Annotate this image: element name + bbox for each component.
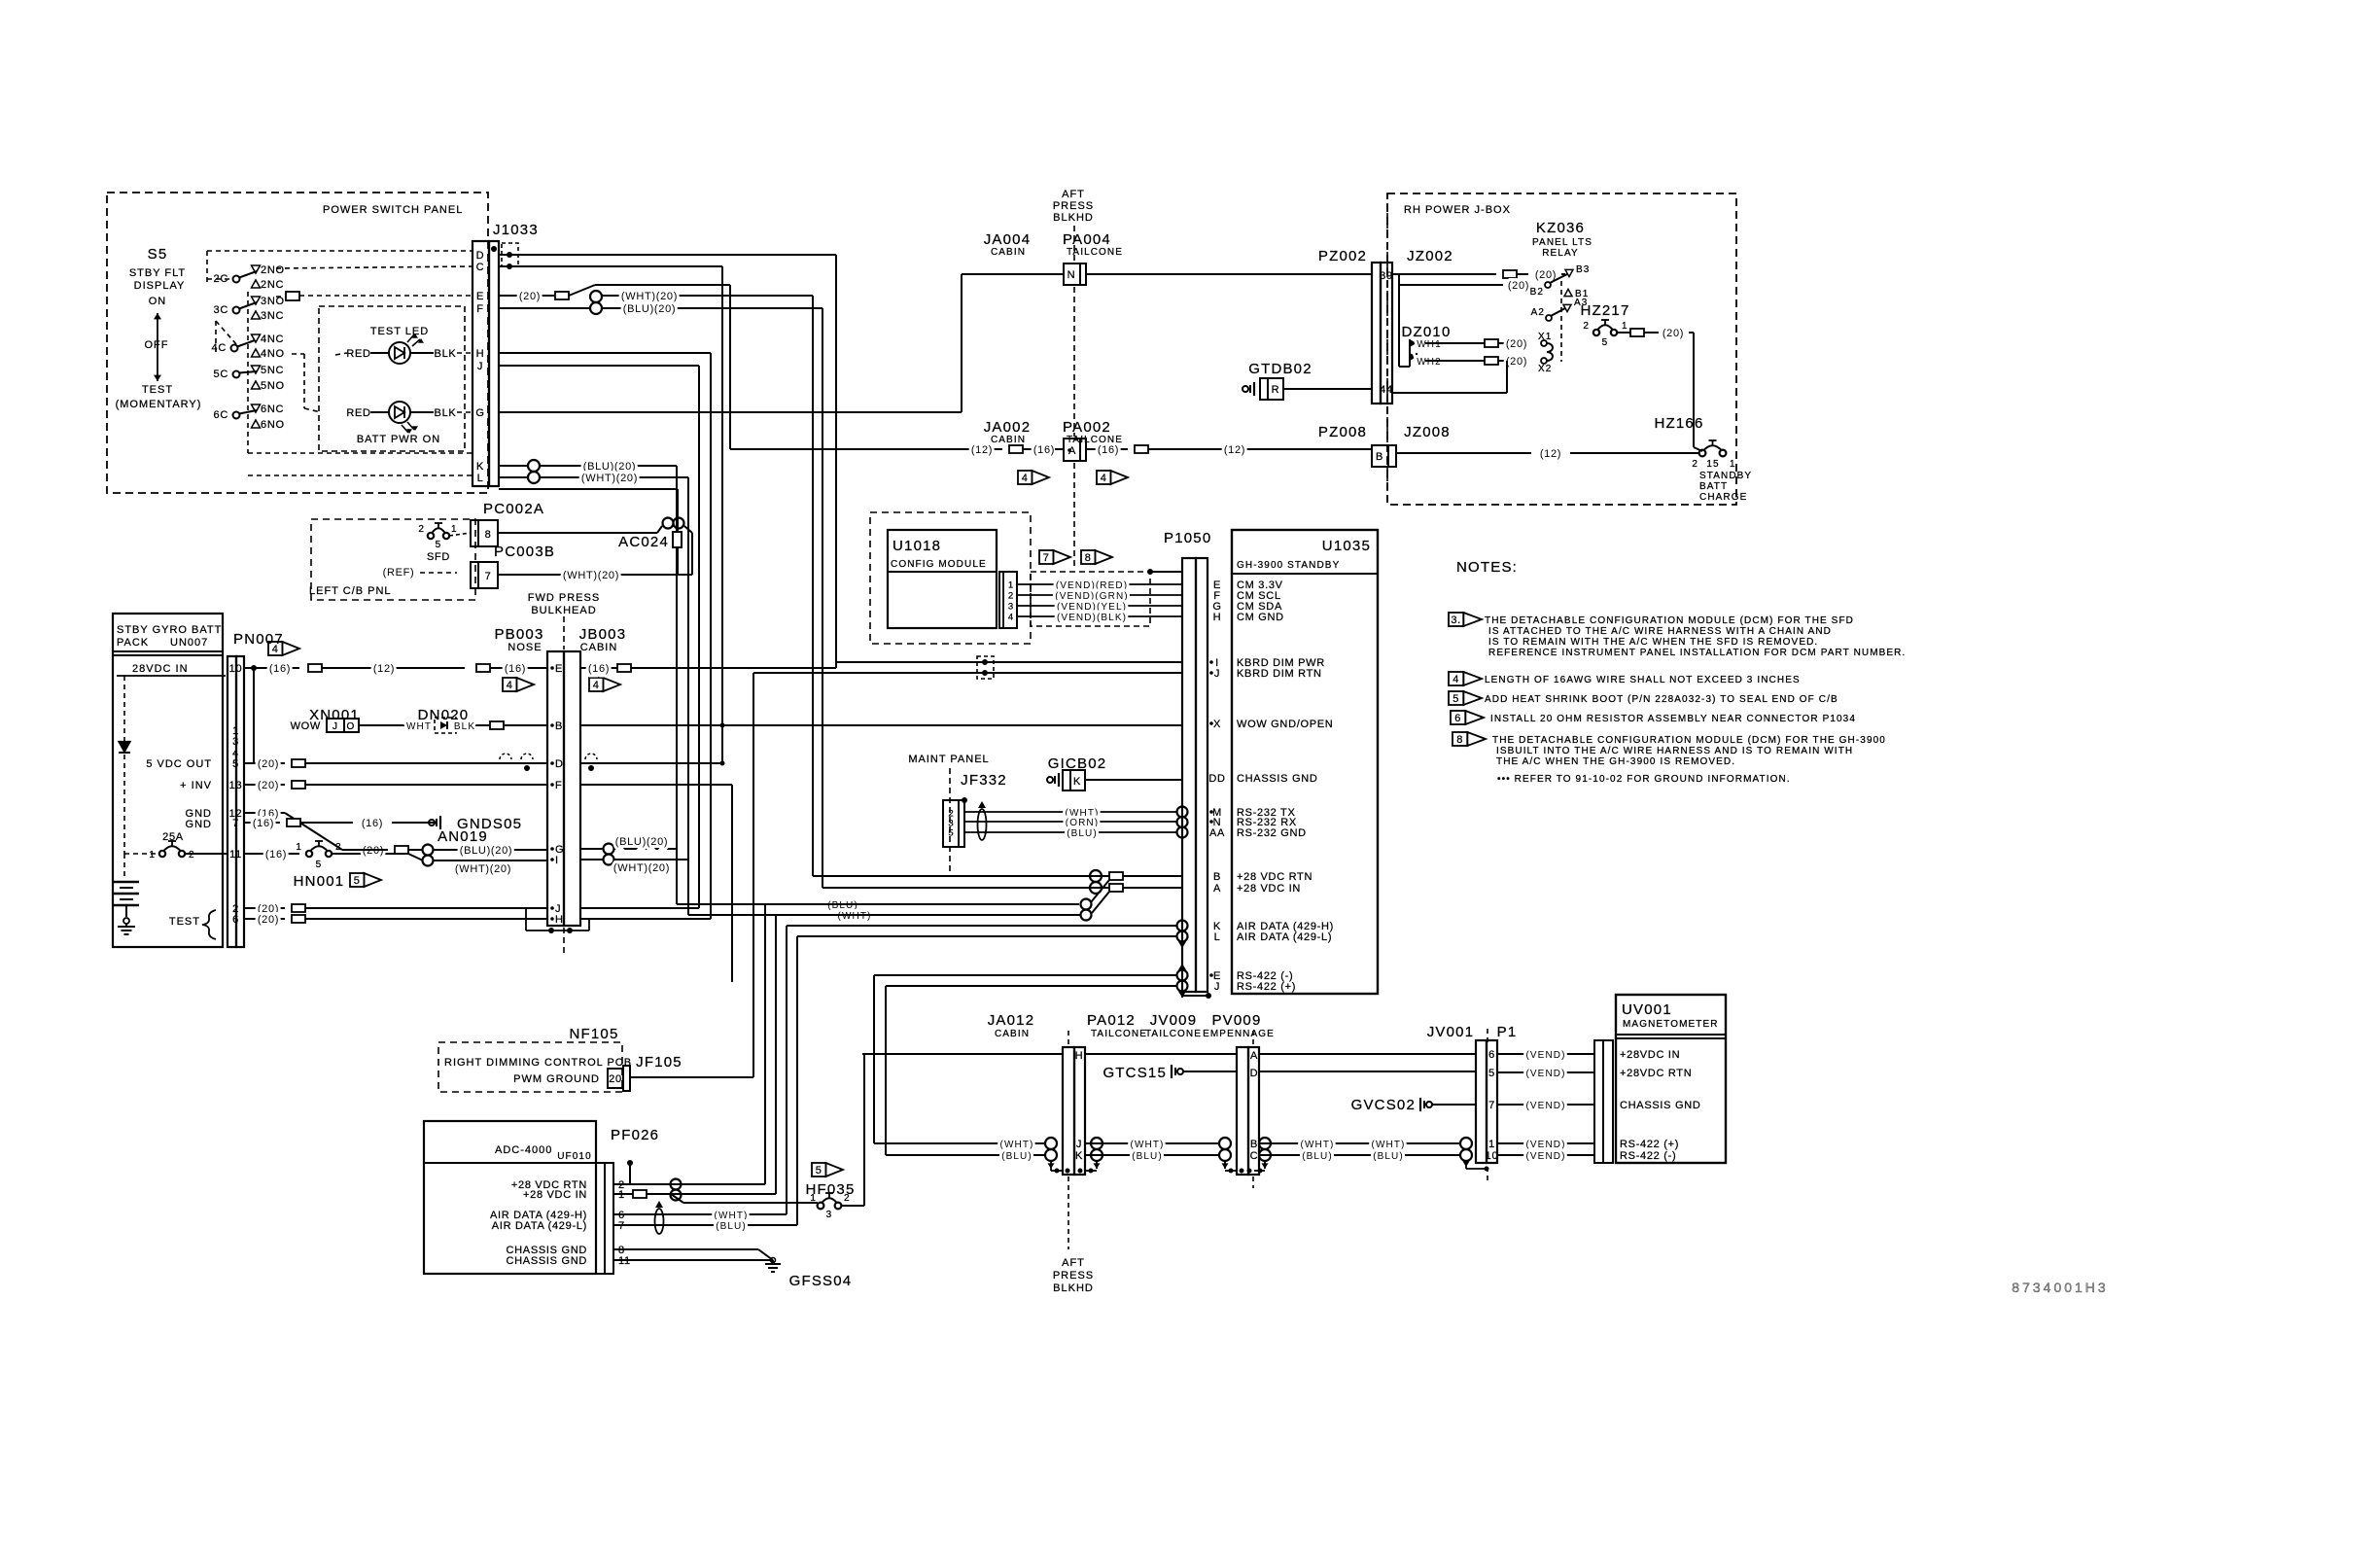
- svg-text:RS-232 GND: RS-232 GND: [1237, 827, 1307, 839]
- twisted pair at E/F: [499, 291, 602, 314]
- U1018 config module box: [888, 530, 997, 628]
- JV001 pin 1: [1488, 1139, 1495, 1150]
- svg-text:1: 1: [1622, 321, 1628, 332]
- wire AIR DATA 429-L row: [797, 935, 1176, 937]
- wire L (WHT)(20): [540, 473, 688, 915]
- wire A through PV009: [1259, 1053, 1476, 1055]
- wire pin10 to bulkhead E: [244, 663, 547, 675]
- svg-text:5NO: 5NO: [261, 380, 285, 392]
- wire branch to HF035: [671, 1194, 818, 1203]
- wire RS-232 TX (WHT): [964, 808, 1177, 819]
- svg-text:J: J: [1214, 668, 1220, 680]
- svg-text:O: O: [347, 721, 356, 732]
- svg-text:+28 VDC RTN: +28 VDC RTN: [1237, 871, 1312, 883]
- wire E (20) riser: [499, 285, 730, 449]
- svg-text:AA: AA: [1209, 827, 1225, 839]
- P1050 pin B / +28 VDC RTN: [1213, 871, 1312, 883]
- switch pole 4C: [212, 334, 285, 360]
- wire K (BLU)(20): [540, 461, 677, 904]
- svg-text:(VEND)(BLK): (VEND)(BLK): [1057, 613, 1127, 623]
- twisted shield JV001: [1460, 1138, 1489, 1172]
- svg-text:RS-422 (+): RS-422 (+): [1620, 1139, 1679, 1150]
- connector JV009 label: [1145, 1012, 1202, 1039]
- svg-text:4: 4: [1101, 473, 1107, 484]
- svg-text:(12): (12): [1540, 448, 1561, 460]
- svg-text:NOTES:: NOTES:: [1456, 559, 1518, 576]
- svg-text:STBY FLT: STBY FLT: [129, 267, 186, 279]
- JV009 pin C: [1250, 1150, 1259, 1162]
- connector PN007 label: [233, 631, 284, 648]
- wire 44 to coil: [1392, 361, 1507, 393]
- svg-text:AC024: AC024: [618, 534, 669, 550]
- svg-text:(16): (16): [269, 663, 291, 675]
- connector PA004 label: [1063, 231, 1123, 258]
- svg-text:(20): (20): [1508, 280, 1529, 292]
- note 6 flag: [1451, 711, 1484, 724]
- twisted shield AIR DATA: [1177, 921, 1188, 949]
- svg-text:(BLU): (BLU): [1132, 1151, 1163, 1162]
- wire 39 to B3: [1392, 269, 1565, 281]
- J1033 pin C: [476, 262, 485, 273]
- wire G to panel lts: [499, 274, 962, 412]
- svg-text:RED: RED: [346, 348, 370, 360]
- twisted pair at K/L: [499, 460, 540, 483]
- svg-text:6: 6: [1454, 713, 1461, 724]
- svg-text:11: 11: [229, 849, 242, 860]
- svg-text:RS-422 (+): RS-422 (+): [1237, 981, 1296, 993]
- svg-text:A2: A2: [1531, 307, 1545, 318]
- contact B1: [1564, 289, 1589, 299]
- svg-text:44: 44: [1380, 384, 1393, 396]
- breaker SFD: [418, 523, 471, 563]
- wire B2 branch: [1399, 274, 1529, 292]
- wire CM GND (VEND)(BLK): [1017, 613, 1182, 623]
- GND labels: [186, 808, 212, 830]
- wire WH1 X1: [1417, 332, 1552, 350]
- wire WHT/BLU into JV009: [1215, 1143, 1219, 1155]
- diode pair DZ010: [1399, 285, 1452, 367]
- svg-text:6C: 6C: [214, 409, 228, 421]
- PF026 labels: [495, 1127, 659, 1162]
- svg-text:JA002: JA002: [984, 419, 1032, 436]
- UF010 top jumper: [627, 1160, 633, 1184]
- svg-text:MAGNETOMETER: MAGNETOMETER: [1623, 1019, 1719, 1030]
- svg-text:CABIN: CABIN: [991, 435, 1026, 445]
- connector PC002A label: [483, 501, 544, 517]
- wire J1033 bottom to AC024: [499, 489, 678, 532]
- svg-text:WH2: WH2: [1417, 357, 1442, 368]
- svg-text:GFSS04: GFSS04: [789, 1273, 853, 1289]
- note flag 8: [1081, 550, 1112, 564]
- svg-text:U1018: U1018: [892, 538, 941, 554]
- svg-text:THE DETACHABLE CONFIGURATION M: THE DETACHABLE CONFIGURATION MODULE (DCM…: [1492, 735, 1886, 746]
- svg-text:AFT: AFT: [1062, 1257, 1085, 1269]
- svg-text:B3: B3: [1576, 264, 1590, 275]
- TEST label: [169, 910, 216, 939]
- svg-text:(20): (20): [1506, 338, 1527, 350]
- svg-text:2: 2: [1692, 459, 1698, 470]
- connector PN007: [227, 656, 244, 947]
- svg-text:JV001: JV001: [1427, 1024, 1475, 1040]
- svg-text:BLK: BLK: [454, 721, 475, 732]
- svg-text:2: 2: [335, 842, 342, 853]
- svg-text:H: H: [476, 348, 485, 360]
- JF332 shield: [978, 801, 987, 840]
- UN007 title: [113, 624, 223, 655]
- svg-text:(WHT)(20): (WHT)(20): [613, 862, 670, 874]
- dashed from 4NO to LED: [292, 354, 321, 412]
- note 5 flag: [1449, 691, 1482, 705]
- svg-text:(VEND): (VEND): [1525, 1050, 1565, 1061]
- svg-text:SFD: SFD: [427, 551, 450, 563]
- svg-text:DISPLAY: DISPLAY: [134, 280, 186, 292]
- contact B2: [1530, 274, 1567, 298]
- FWD PRESS BULKHEAD label: [528, 592, 600, 616]
- JA012 pin J: [1076, 1139, 1082, 1150]
- svg-text:7: 7: [1488, 1100, 1495, 1111]
- wire WHT(20) to +28 RTN: [602, 291, 813, 876]
- svg-text:(BLU): (BLU): [1001, 1151, 1032, 1162]
- PB003 under-bar shield: [526, 908, 589, 933]
- svg-text:1: 1: [451, 524, 458, 535]
- connector JA002 label: [984, 419, 1032, 445]
- svg-text:(VEND): (VEND): [1525, 1151, 1565, 1162]
- svg-text:BLK: BLK: [435, 407, 457, 419]
- svg-text:RELAY: RELAY: [1542, 248, 1579, 259]
- ADC-4000 box PF026: [424, 1121, 596, 1274]
- svg-text:(WHT)(20): (WHT)(20): [455, 863, 511, 875]
- TEST LED label: [370, 326, 429, 337]
- svg-text:(WHT): (WHT): [1000, 1140, 1034, 1150]
- svg-text:+28VDC IN: +28VDC IN: [1620, 1049, 1680, 1061]
- svg-text:4NO: 4NO: [261, 348, 285, 360]
- BATT LED wiring: [346, 407, 472, 419]
- connector JB003 label: [579, 626, 627, 653]
- svg-text:ISBUILT INTO THE A/C WIRE HARN: ISBUILT INTO THE A/C WIRE HARNESS AND IS…: [1496, 746, 1853, 756]
- note ground ref: [1497, 774, 1791, 785]
- svg-text:I: I: [555, 855, 559, 866]
- S5 travel arrow: [154, 313, 161, 381]
- wire WHT into JA012: [874, 1140, 1045, 1150]
- svg-text:CABIN: CABIN: [995, 1029, 1030, 1039]
- note flag 4: [589, 678, 620, 691]
- wire (12) to JA002: [730, 444, 1064, 456]
- svg-text:TAILCONE: TAILCONE: [1145, 1029, 1202, 1039]
- P1050 pin G / CM SDA: [1212, 601, 1282, 613]
- svg-text:J: J: [332, 721, 338, 732]
- connector PA002 label: [1063, 419, 1123, 445]
- wire D to JV001 5: [1259, 1071, 1476, 1072]
- wire 429-L riser: [796, 936, 798, 1225]
- PB003 pin H: [550, 914, 563, 926]
- wire H to TEST: [499, 353, 711, 919]
- breaker HZ166: [1692, 440, 1735, 470]
- connector JV001/P1: [1476, 1040, 1497, 1163]
- svg-text:(WHT)(20): (WHT)(20): [563, 570, 619, 581]
- svg-text:(VEND)(RED): (VEND)(RED): [1056, 580, 1128, 591]
- wire PF026 +28 pair join: [765, 880, 1109, 921]
- battery ground: [118, 918, 135, 934]
- switch XN001: [291, 707, 360, 732]
- wire 429-H to riser: [613, 1211, 787, 1221]
- P1050 pin A / +28 VDC IN: [1213, 883, 1301, 895]
- svg-text:(16): (16): [588, 663, 610, 675]
- fuse HN001: [244, 841, 423, 870]
- connector PC003B label: [494, 544, 555, 560]
- fuse 25A: [124, 831, 227, 860]
- svg-text:3: 3: [826, 1210, 833, 1220]
- switch dashed to pin C: [276, 266, 472, 268]
- battery BT1: [114, 854, 139, 917]
- svg-text:UN007: UN007: [170, 637, 208, 649]
- wire D right: [500, 754, 722, 763]
- drawing number: [2012, 1280, 2108, 1295]
- connector JA002/PA002: [1064, 439, 1086, 461]
- svg-text:(WHT): (WHT): [1301, 1140, 1335, 1150]
- UV001 title: [1622, 1001, 1719, 1030]
- UF010 pin 1 / +28 VDC IN: [523, 1189, 625, 1201]
- svg-text:GTCS15: GTCS15: [1102, 1065, 1167, 1081]
- wire chassis gnd 11: [613, 1259, 773, 1261]
- svg-text:1: 1: [149, 850, 156, 860]
- svg-text:(BLU): (BLU): [1067, 828, 1098, 839]
- HN001 label: [294, 873, 345, 890]
- ground GTCS15: [1102, 1065, 1237, 1081]
- svg-text:LENGTH OF 16AWG WIRE SHALL NOT: LENGTH OF 16AWG WIRE SHALL NOT EXCEED 3 …: [1485, 675, 1801, 685]
- svg-text:PRESS: PRESS: [1053, 200, 1094, 212]
- VEND dashed box: [1031, 572, 1150, 626]
- wire pin13 INV to bulkhead F: [244, 780, 547, 791]
- svg-text:PA004: PA004: [1063, 231, 1111, 248]
- U1018 title: [891, 538, 987, 570]
- connector JA012 label: [988, 1012, 1035, 1039]
- svg-text:B2: B2: [1530, 287, 1544, 298]
- contact B3: [1565, 264, 1590, 277]
- wire KBRD DIM PWR: [836, 661, 1182, 663]
- svg-text:UV001: UV001: [1622, 1001, 1672, 1018]
- wire E right (16): [580, 662, 836, 675]
- fuse AC024: [618, 532, 682, 575]
- 28VDC dashed feed: [123, 676, 125, 854]
- wire +28 RTN row: [813, 872, 1182, 880]
- S5 position ON: [149, 296, 167, 307]
- JV001 pin 6: [1488, 1049, 1495, 1061]
- connector PB003/JB003: [547, 651, 580, 926]
- AFT PRESS BLKHD label top: [1053, 189, 1094, 224]
- svg-text:15: 15: [1706, 459, 1719, 470]
- svg-text:(WHT)(20): (WHT)(20): [581, 473, 638, 484]
- connector JF105 label: [636, 1054, 682, 1071]
- svg-text:CHASSIS GND: CHASSIS GND: [1237, 773, 1318, 785]
- left c/b panel dashed box: [311, 519, 475, 600]
- ground GICB02: [1047, 755, 1182, 790]
- wire HZ217 (20): [1617, 328, 1702, 451]
- svg-text:28VDC IN: 28VDC IN: [132, 663, 189, 675]
- wire pin10 branch to pin5 row: [251, 665, 257, 763]
- P1050 pin E / RS-422 (-): [1209, 970, 1293, 982]
- svg-text:(16): (16): [1033, 444, 1055, 456]
- connector PC003B: [471, 562, 498, 588]
- svg-text:C: C: [1250, 1150, 1259, 1162]
- svg-text:5: 5: [948, 828, 953, 839]
- wire PC003B (WHT)(20): [498, 570, 692, 581]
- connector PC002A: [471, 520, 498, 546]
- UF010 pin 7 / AIR DATA (429-L): [492, 1220, 625, 1232]
- svg-text:PA012: PA012: [1087, 1012, 1136, 1029]
- note 8 text: [1492, 735, 1886, 767]
- svg-text:3: 3: [1008, 602, 1013, 613]
- UF010 pin 11 / CHASSIS GND: [507, 1255, 631, 1267]
- P1050 pin AA / RS-232 GND: [1209, 827, 1307, 839]
- JV009 pin D: [1250, 1068, 1259, 1079]
- svg-text:F: F: [555, 780, 562, 791]
- left c/b panel label: [309, 585, 392, 597]
- svg-text:(BLU): (BLU): [716, 1221, 747, 1232]
- wire +28 RTN to riser: [613, 1183, 765, 1185]
- svg-text:6: 6: [1488, 1049, 1495, 1061]
- svg-text:(WHT): (WHT): [1372, 1140, 1406, 1150]
- J1033 pin H: [476, 348, 485, 360]
- svg-text:JZ002: JZ002: [1407, 248, 1453, 264]
- connector P1 label: [1497, 1024, 1518, 1040]
- UV001 connector: [1594, 1040, 1613, 1163]
- svg-text:13: 13: [229, 780, 243, 791]
- U1018 outer dashed box: [870, 512, 1031, 644]
- svg-text:(20): (20): [1662, 328, 1684, 339]
- svg-text:S5: S5: [148, 246, 168, 263]
- svg-text:JA004: JA004: [984, 231, 1032, 248]
- wire (BLU)(20) to G: [434, 845, 547, 857]
- svg-text:8734001H3: 8734001H3: [2012, 1280, 2108, 1295]
- svg-text:5C: 5C: [214, 369, 228, 380]
- svg-text:3C: 3C: [214, 304, 228, 316]
- P1050 pin N / RS-232 RX: [1209, 817, 1297, 828]
- relay linkage dashed: [1560, 281, 1562, 362]
- wire HF035 to JA012 riser: [841, 1054, 864, 1206]
- relay coil: [1547, 343, 1553, 361]
- AFT PRESS BLKHD label bottom: [1053, 1257, 1094, 1294]
- wire RS-232 GND (BLU): [964, 828, 1177, 839]
- svg-text:(12): (12): [1224, 444, 1245, 456]
- PB003 pin I: [550, 855, 559, 866]
- svg-text:A: A: [1213, 883, 1221, 895]
- TEST LED D1: [389, 334, 424, 364]
- connector JZ008 label: [1404, 424, 1451, 440]
- note flag 4: [1097, 471, 1128, 484]
- connector JZ002 label: [1407, 248, 1453, 264]
- svg-text:(20): (20): [519, 291, 541, 302]
- wire BLU to +28 RTN: [677, 900, 858, 1184]
- svg-text:K: K: [1073, 776, 1081, 788]
- svg-text:(REF): (REF): [383, 567, 415, 579]
- connector JA012/PA012: [1063, 1047, 1085, 1175]
- wire U1018 top link: [1147, 569, 1182, 575]
- switch S5 label: [148, 246, 168, 263]
- wire pin5 5VDC to bulkhead D: [244, 754, 597, 771]
- svg-text:CABIN: CABIN: [580, 642, 618, 653]
- twisted pair +28 at P1050: [1090, 870, 1102, 894]
- wire pin12 GND: [244, 808, 342, 850]
- wire pin2 TEST: [244, 903, 547, 915]
- ground stud GNDS05: [429, 816, 522, 832]
- svg-text:PC003B: PC003B: [494, 544, 555, 560]
- connector JV009/PV009: [1237, 1047, 1259, 1175]
- svg-text:POWER SWITCH PANEL: POWER SWITCH PANEL: [323, 204, 463, 216]
- svg-text:TEST: TEST: [142, 384, 173, 396]
- PN007 pin 10: [229, 663, 243, 675]
- wire CM 3.3V (VEND)(RED): [1017, 580, 1182, 591]
- U1018 pin 3: [1008, 602, 1013, 613]
- BATT PWR ON label: [357, 434, 440, 445]
- switch pole 5C: [214, 365, 285, 392]
- wire WHT/BLU to JV001: [1372, 1140, 1460, 1162]
- svg-text:7: 7: [485, 571, 492, 582]
- svg-text:6NO: 6NO: [261, 419, 285, 431]
- connector J1033: [472, 241, 499, 486]
- svg-text:WOW GND/OPEN: WOW GND/OPEN: [1237, 719, 1333, 730]
- contact A2: [1531, 307, 1565, 321]
- svg-text:UF010: UF010: [557, 1151, 592, 1162]
- ground GVCS02: [1351, 1097, 1476, 1113]
- wire C to WOW: [499, 266, 722, 763]
- svg-text:N: N: [1067, 269, 1076, 281]
- relay KZ036 label: [1532, 220, 1592, 259]
- tailcone dashed line: [1252, 1031, 1254, 1188]
- wire D to KBRD DIM PWR: [499, 255, 836, 662]
- svg-text:(WHT): (WHT): [838, 911, 872, 922]
- svg-text:L: L: [477, 473, 484, 484]
- JA012 pin H: [1075, 1050, 1084, 1062]
- svg-text:6NC: 6NC: [261, 404, 284, 415]
- svg-text:EMPENNAGE: EMPENNAGE: [1203, 1029, 1275, 1039]
- U1018 pin 1: [1008, 580, 1013, 591]
- connector PZ002 label: [1318, 248, 1367, 264]
- svg-text:OFF: OFF: [145, 339, 169, 351]
- svg-text:CONFIG MODULE: CONFIG MODULE: [891, 559, 987, 570]
- svg-text:••• REFER TO 91-10-02 FOR GR: ••• REFER TO 91-10-02 FOR GROUND INFORMA…: [1497, 774, 1791, 785]
- svg-text:+28 VDC IN: +28 VDC IN: [1237, 883, 1301, 895]
- svg-text:KZ036: KZ036: [1536, 220, 1585, 236]
- wire AIR DATA 429-H row: [787, 925, 1176, 927]
- svg-text:PANEL LTS: PANEL LTS: [1532, 237, 1592, 248]
- wire RS-422 plus row: [886, 986, 1176, 1155]
- twisted shield JA012 right: [1078, 1138, 1103, 1174]
- svg-text:MAINT PANEL: MAINT PANEL: [908, 754, 989, 765]
- magnetometer UV001 box: [1616, 995, 1726, 1163]
- svg-text:3NC: 3NC: [261, 310, 284, 322]
- P1050 pin H / CM GND: [1213, 612, 1284, 623]
- switch pole 2C: [214, 264, 285, 291]
- 28VDC IN label: [117, 663, 226, 676]
- svg-text:4: 4: [1008, 613, 1013, 623]
- RH POWER J-BOX dashed box: [1387, 193, 1736, 505]
- wire WH2 X2: [1417, 356, 1552, 374]
- note 3 flag: [1449, 613, 1482, 626]
- connector UF010: [596, 1163, 613, 1274]
- P1050 pin DD / CHASSIS GND: [1208, 773, 1317, 785]
- svg-text:RS-422 (-): RS-422 (-): [1620, 1150, 1676, 1162]
- PB003 pin B: [550, 720, 563, 732]
- note flag 5: [812, 1163, 843, 1176]
- connector JA004/PA004: [1064, 263, 1086, 285]
- svg-text:G: G: [475, 407, 484, 419]
- svg-text:HZ217: HZ217: [1580, 302, 1629, 319]
- switch 4 linkage dashed: [216, 321, 236, 352]
- svg-text:PRESS: PRESS: [1053, 1270, 1094, 1282]
- contact A3: [1563, 298, 1588, 312]
- connector J1033 label: [493, 222, 539, 238]
- svg-text:WHT: WHT: [406, 721, 432, 732]
